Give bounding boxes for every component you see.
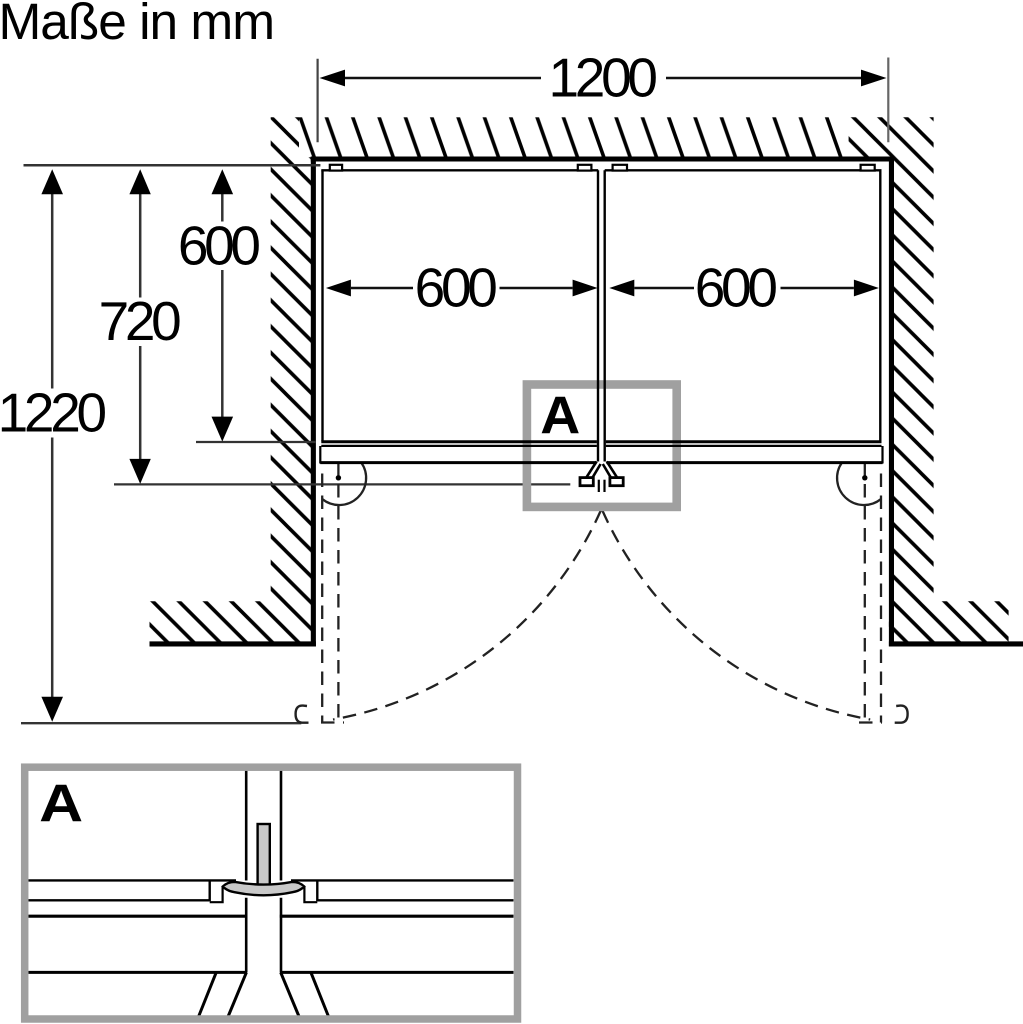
divider gap wall left: [245, 767, 248, 881]
plinth end caps: [319, 446, 321, 464]
right wall line: [889, 156, 894, 646]
door top surface left: [29, 879, 237, 881]
seal plate: [223, 882, 304, 895]
dimension 1200: [320, 46, 887, 108]
left wall hatch + left floor slab hatch (45deg): [149, 117, 311, 641]
dimension 1200 extension line left: [317, 59, 319, 143]
dimension 600 vertical: [178, 169, 260, 441]
svg-text:600: 600: [695, 256, 777, 318]
left door outline: [321, 170, 598, 461]
seal rail gray bar: [258, 824, 270, 886]
gasket line right: [317, 899, 513, 901]
dimension 720 vertical: [99, 169, 181, 484]
pocket tick right: [316, 880, 318, 901]
door front line lower: [321, 445, 881, 447]
pocket step right: [304, 886, 317, 902]
left hinge swing arc small: [322, 463, 366, 505]
hinge bump top left door outer: [330, 165, 342, 171]
dimension 1200 extension line right: [887, 58, 889, 143]
floor line left: [29, 971, 248, 974]
left wall line: [311, 156, 316, 646]
center hinge foot right: [610, 478, 623, 486]
hinge bump top left door inner: [578, 165, 592, 171]
detail view box contents: [29, 767, 514, 1016]
door front line upper: [321, 440, 881, 443]
hinge bump top right door inner: [613, 165, 627, 171]
detail view box border (big, gray): [25, 767, 518, 1019]
niche top wall hatch (steep strokes): [299, 117, 850, 157]
right hinge swing arc small: [837, 463, 881, 505]
floor line right: [280, 971, 514, 974]
svg-text:720: 720: [99, 290, 181, 352]
door bottom line right: [280, 915, 514, 918]
detail callout box A (small, gray): [527, 385, 677, 507]
svg-text:600: 600: [178, 214, 260, 276]
svg-text:600: 600: [415, 256, 497, 318]
left open door dashed outline: [321, 462, 344, 723]
600 depth reference line: [196, 441, 316, 443]
svg-text:1200: 1200: [549, 46, 657, 108]
door bottom line left: [29, 915, 248, 918]
right open door dashed outline: [859, 462, 882, 723]
svg-text:1220: 1220: [0, 382, 105, 444]
1220 depth reference line: [21, 722, 301, 724]
svg-text:A: A: [39, 775, 83, 834]
right floor slab line: [889, 641, 1023, 646]
niche top wall line: [311, 156, 894, 161]
right door swing arc dashed: [602, 511, 870, 720]
dimension 600 left door: [326, 256, 598, 318]
dimension 600 right door: [609, 256, 879, 318]
left hinge pivot dot: [336, 475, 341, 480]
left floor slab line: [150, 641, 316, 646]
plinth bottom line: [320, 461, 882, 464]
pocket tick left: [208, 880, 210, 901]
svg-text:Maße in mm: Maße in mm: [0, 0, 274, 50]
center hinge legs: [586, 462, 618, 480]
pocket step left: [210, 886, 223, 902]
dimension 1220 vertical: [0, 169, 105, 721]
left door swing arc dashed: [333, 511, 601, 720]
left door handle in open position: [296, 706, 309, 723]
right wall hatch + corner + right floor slab hatch (45deg): [849, 117, 1009, 641]
right door handle in open position: [895, 706, 908, 723]
top reference line: [24, 164, 321, 167]
hinge bump top right door outer: [861, 165, 875, 171]
trunk wall right: [280, 898, 283, 973]
right hinge pivot dot: [862, 475, 867, 480]
trunk wall left: [245, 898, 248, 973]
center hinge foot left: [580, 478, 593, 486]
svg-text:A: A: [540, 387, 580, 446]
divider gap wall right: [280, 767, 283, 881]
gasket line left: [29, 899, 210, 901]
720 depth reference line: [114, 483, 570, 485]
right door outline: [605, 170, 882, 461]
flare lines: [199, 972, 328, 1016]
center hinge dashes: [598, 480, 600, 492]
door top surface right: [291, 879, 514, 881]
